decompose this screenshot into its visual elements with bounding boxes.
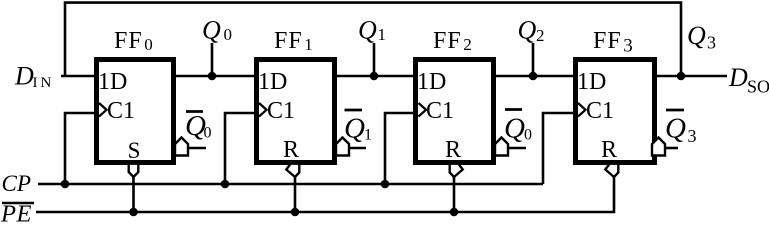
FF0 Q-bar output polarity flag [175,138,188,156]
svg-text:R: R [601,137,617,163]
FF1 Q-bar output polarity flag [336,138,349,156]
svg-text:SO: SO [747,77,769,97]
wire: FF1 C1 clock lead from CP line [225,113,258,184]
wire: Q3 feedback loop (top) [65,3,681,77]
node: PE to FF1 R [291,208,300,217]
svg-text:PE: PE [0,201,31,228]
svg-text:1D: 1D [98,69,127,95]
svg-text:0: 0 [224,25,233,44]
FF1 clock wedge [259,103,267,117]
FF2 clock wedge [419,103,427,117]
svg-text:3: 3 [707,33,716,53]
node: CP to FF1 clock [221,180,230,189]
svg-text:S: S [128,138,141,163]
svg-text:Q: Q [202,16,221,45]
wire: Q2 stub [532,43,535,76]
node: Q1 junction [370,72,379,81]
node: Q3 junction [677,72,686,81]
label Q1-bar at FF1 output [344,110,372,145]
wire: CP clock line [38,183,543,186]
node: CP to FF2 clock [381,180,390,189]
FF3 Q-bar output polarity flag [652,138,665,156]
FF2 Q-bar output polarity flag [495,138,508,156]
svg-text:1D: 1D [577,69,606,95]
svg-text:1D: 1D [417,69,446,95]
wire: FF3 C1 clock lead from CP line [543,113,578,184]
wire: Q0 stub [211,43,214,76]
wire: FF0 S input to PE line [132,176,135,212]
flip-flop U2 body (FF2) [416,60,494,163]
wire: DIN lead into FF0 1D [61,75,97,78]
svg-text:C1: C1 [426,98,454,124]
label Q3-bar at FF3 output [665,110,697,146]
wire: PE line [36,177,614,212]
node: Q2 junction [529,72,538,81]
svg-text:Q: Q [504,113,525,145]
FF3 R input polarity bubble [605,164,618,177]
wire: FF2 R input to PE line [453,176,456,212]
svg-text:0: 0 [524,127,532,144]
wire: FF1 output to FF2 1D [334,75,418,78]
node: CP to FF0 clock [61,180,70,189]
node: PE to FF0 S [129,208,138,217]
wire: FF3 Q-bar output stub [664,147,678,150]
wire: FF2 C1 clock lead from CP line [385,113,418,184]
FF0 clock wedge [99,103,107,117]
FF0 S input polarity bubble [129,164,139,177]
svg-text:R: R [283,137,299,163]
svg-text:IN: IN [33,75,55,91]
svg-text:D: D [14,62,34,91]
label Q0-bar at FF0 output [185,110,212,142]
wire: FF2 output to FF3 1D [493,75,578,78]
svg-text:D: D [728,63,748,92]
flip-flop U3 body (FF3) [576,60,655,163]
FF2 R input polarity bubble [450,164,463,177]
svg-text:R: R [445,137,461,163]
flip-flop U0 body (FF0) [97,60,174,163]
svg-text:Q: Q [687,21,706,50]
svg-text:Q: Q [518,16,537,45]
FF3 clock wedge [578,103,586,117]
svg-text:1: 1 [378,25,387,44]
wire: FF3 output to DSO [654,75,727,78]
wire: FF1 Q-bar output stub [349,147,366,150]
svg-text:2: 2 [536,26,545,45]
node: Q0 junction [208,72,217,81]
svg-text:0: 0 [204,125,212,142]
wire: FF0 output to FF1 1D [173,75,258,78]
svg-text:CP: CP [2,171,31,196]
wire: FF2 Q-bar output stub [508,147,526,150]
FF1 R input polarity bubble [286,164,299,177]
svg-text:C1: C1 [267,98,295,124]
flip-flop U1 body (FF1) [257,60,335,163]
svg-text:C1: C1 [586,98,614,124]
svg-text:3: 3 [688,126,697,146]
svg-text:1: 1 [364,127,372,144]
svg-text:Q: Q [665,113,686,145]
wire: FF1 R input to PE line [294,176,297,212]
svg-text:Q: Q [358,16,377,45]
wire: Q1 stub [373,43,376,76]
node: PE to FF2 R [450,208,459,217]
svg-text:C1: C1 [107,98,135,124]
label Q0-bar at FF2 output (as printed) [504,110,532,145]
svg-text:Q: Q [344,113,365,145]
svg-text:1D: 1D [258,69,287,95]
wire: FF0 Q-bar output stub [188,147,206,150]
label PE-bar (preset enable input) [0,201,34,228]
wire: FF0 C1 clock lead from CP line [65,113,97,184]
